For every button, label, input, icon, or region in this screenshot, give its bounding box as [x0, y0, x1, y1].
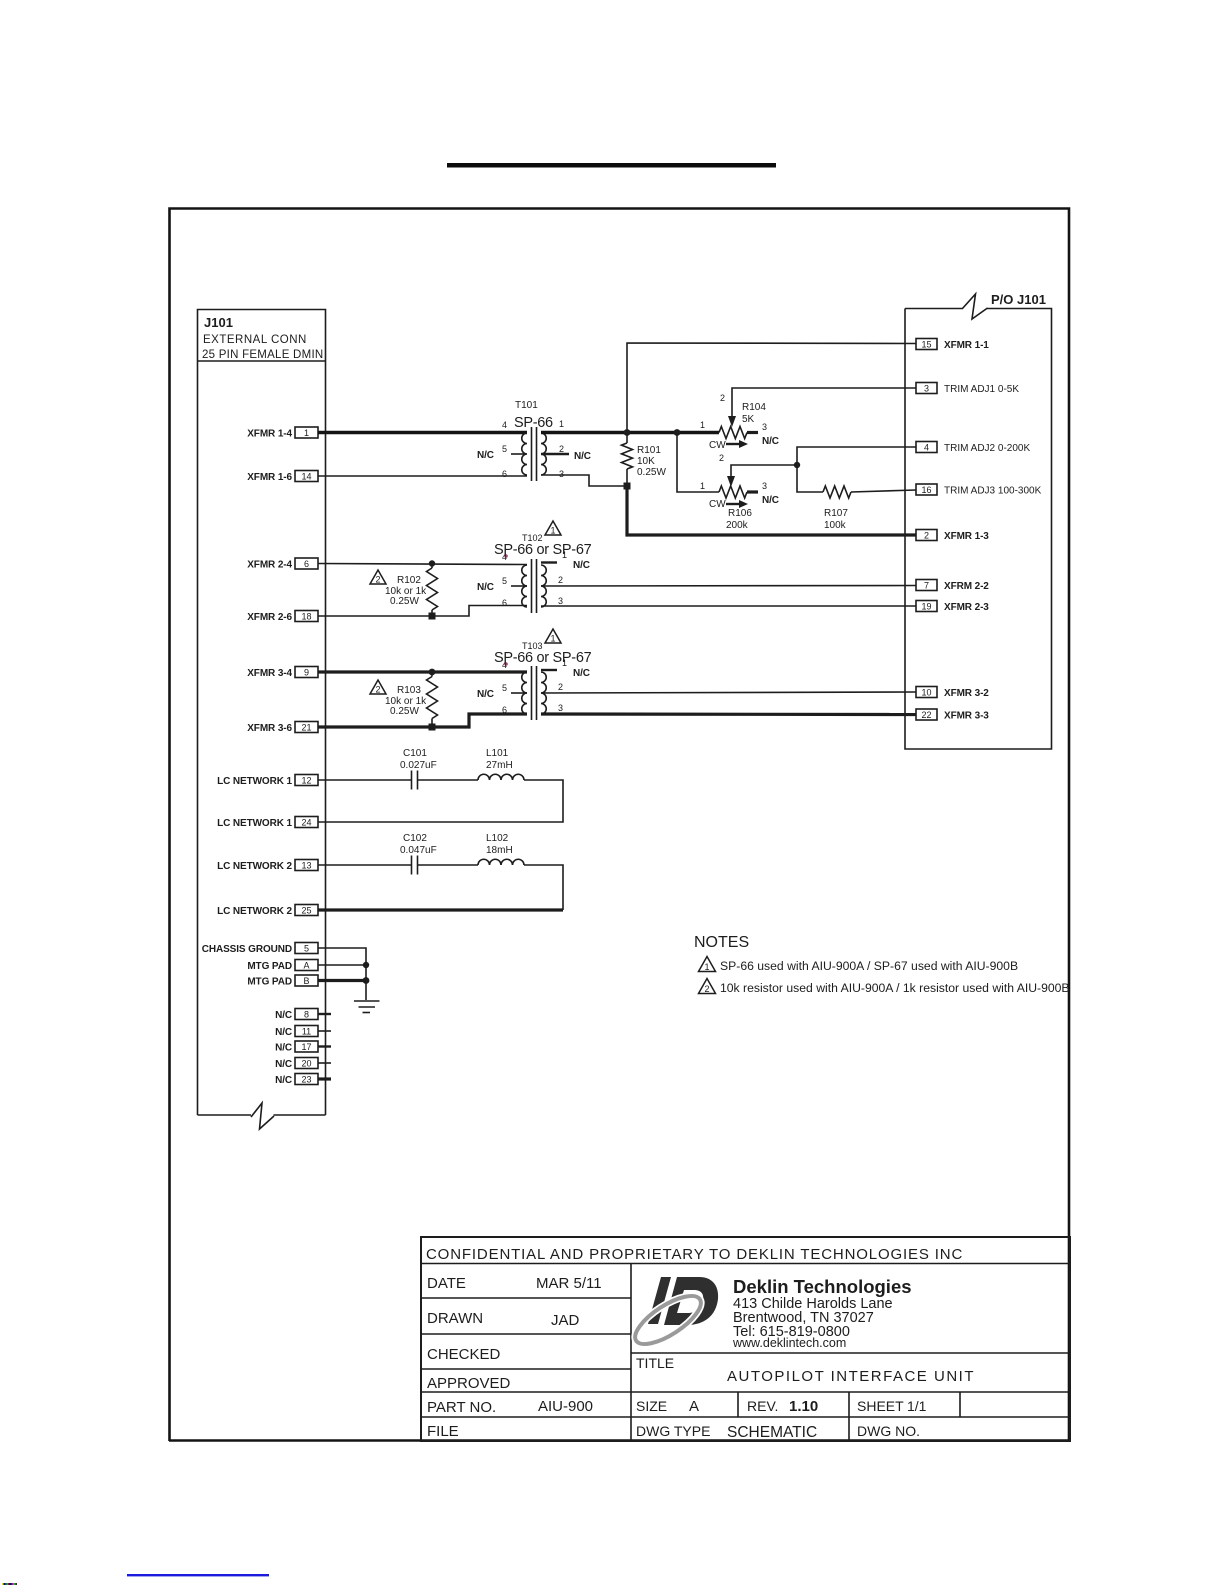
svg-text:2: 2 — [375, 685, 380, 695]
svg-text:18mH: 18mH — [486, 845, 513, 856]
wire N/C stub at pin row y=1031 — [318, 1030, 331, 1032]
wire MTG PAD pin A — [318, 964, 366, 966]
title block row lines — [421, 1297, 631, 1299]
svg-text:N/C: N/C — [477, 689, 494, 700]
resistor R103 — [429, 669, 436, 676]
connector P/O J101 outline — [905, 309, 1052, 750]
svg-text:R101: R101 — [637, 445, 661, 456]
svg-text:3: 3 — [762, 481, 767, 491]
resistor R101 — [626, 433, 628, 444]
size row verticals — [737, 1392, 739, 1417]
node B junction (R101 bottom) — [624, 483, 631, 490]
svg-text:R106: R106 — [728, 508, 752, 519]
svg-text:2: 2 — [559, 444, 564, 454]
svg-text:XFMR 2-3: XFMR 2-3 — [944, 602, 989, 613]
J101 pin 24 (LC NETWORK 1) — [217, 817, 318, 830]
ground symbol — [354, 1000, 380, 1002]
svg-text:XFMR 3-6: XFMR 3-6 — [247, 723, 292, 734]
inductor L102 — [478, 859, 524, 865]
svg-text:SIZE: SIZE — [636, 1398, 667, 1414]
svg-text:1/1: 1/1 — [907, 1398, 927, 1414]
svg-text:B: B — [303, 976, 309, 986]
potentiometer R104 body — [719, 427, 747, 439]
svg-text:10k resistor used with AIU-900: 10k resistor used with AIU-900A / 1k res… — [720, 981, 1070, 995]
node MTG PAD A junction — [363, 962, 369, 968]
svg-text:XFMR 3-4: XFMR 3-4 — [247, 668, 292, 679]
wire XFMR 2-6: J101 pin 18 to T102 pin 6 — [318, 606, 527, 617]
svg-text:XFMR 1-6: XFMR 1-6 — [247, 472, 292, 483]
J101 pin 1 (XFMR 1-4) — [247, 427, 318, 440]
wire node B to XFMR 1-3 (pin 2) — [627, 486, 916, 535]
P/O J101 pin 15 (XFMR 1-1) — [916, 339, 989, 352]
J101 pin 25 (LC NETWORK 2) — [217, 905, 318, 918]
svg-text:CONFIDENTIAL AND PROPRIETARY T: CONFIDENTIAL AND PROPRIETARY TO DEKLIN T… — [426, 1246, 963, 1263]
T103 pin 1 stub (N/C) — [541, 669, 557, 671]
wire TRIM ADJ2 (pin 4) to R106 wiper — [731, 447, 916, 477]
svg-text:18: 18 — [301, 611, 311, 621]
svg-text:R107: R107 — [824, 508, 848, 519]
svg-text:XFMR 3-2: XFMR 3-2 — [944, 688, 989, 699]
svg-text:2: 2 — [558, 682, 563, 692]
svg-text:SP-66 used with AIU-900A / SP-: SP-66 used with AIU-900A / SP-67 used wi… — [720, 959, 1018, 973]
svg-text:6: 6 — [304, 559, 309, 569]
svg-text:R103: R103 — [397, 685, 421, 696]
T101 pin 5 stub (N/C) — [511, 453, 524, 455]
wire N/C stub at pin row y=1014 — [318, 1013, 331, 1015]
svg-text:12: 12 — [301, 775, 311, 785]
J101 pin 6 (XFMR 2-4) — [247, 558, 318, 571]
svg-text:1: 1 — [304, 428, 309, 438]
warning triangle note 2 (R102) — [370, 570, 386, 584]
J101 pin 20 (N/C) — [275, 1058, 318, 1071]
svg-text:PART NO.: PART NO. — [427, 1399, 496, 1416]
wire T102 pin 2 to XFRM 2-2 (pin 7) — [541, 585, 916, 588]
svg-text:XFMR 1-3: XFMR 1-3 — [944, 531, 989, 542]
wire L102 down — [524, 865, 563, 910]
svg-text:4: 4 — [502, 660, 507, 670]
J101 pin 13 (LC NETWORK 2) — [217, 860, 318, 873]
svg-text:6: 6 — [502, 469, 507, 479]
wire TRIM ADJ1 (pin 3) to R104 wiper — [732, 388, 916, 417]
wire N/C stub at pin row y=1063 — [318, 1062, 331, 1064]
svg-text:LC NETWORK 1: LC NETWORK 1 — [217, 776, 292, 787]
svg-text:TRIM ADJ3 100-300K: TRIM ADJ3 100-300K — [944, 486, 1042, 497]
wire N/C stub at pin row y=1046.5 — [318, 1045, 331, 1047]
svg-text:N/C: N/C — [275, 1059, 292, 1070]
svg-text:14: 14 — [301, 471, 311, 481]
svg-text:5: 5 — [502, 576, 507, 586]
bottom-left colored scan noise — [2, 1583, 4, 1585]
wire T101 pin 3 to R101 bottom node — [541, 475, 627, 486]
transformer T103 left winding — [522, 672, 527, 714]
svg-text:FILE: FILE — [427, 1423, 459, 1440]
svg-text:JAD: JAD — [551, 1312, 580, 1329]
wire XFMR 3-4: J101 pin 9 to T103 pin 4 — [318, 670, 527, 673]
wire C101 to L101 — [418, 779, 478, 781]
wire R107 to TRIM ADJ3 (pin 16) — [851, 490, 916, 492]
wire T103 pin 2 to XFMR 3-2 (pin 10) — [541, 692, 916, 693]
svg-text:LC NETWORK 1: LC NETWORK 1 — [217, 818, 292, 829]
svg-text:20: 20 — [301, 1058, 311, 1068]
svg-text:1.10: 1.10 — [789, 1398, 818, 1415]
J101 pin 11 (N/C) — [275, 1026, 318, 1039]
svg-text:N/C: N/C — [762, 495, 779, 506]
warning triangle note 1 (T103) — [545, 629, 561, 643]
transformer T101 right winding — [541, 433, 546, 475]
wire XFMR 3-6: J101 pin 21 to T103 pin 6 — [318, 714, 527, 727]
svg-text:EXTERNAL CONN: EXTERNAL CONN — [203, 334, 307, 346]
resistor R102 — [429, 560, 435, 566]
svg-text:N/C: N/C — [275, 1027, 292, 1038]
capacitor C102 — [411, 856, 413, 875]
svg-text:3: 3 — [558, 703, 563, 713]
transformer T102 left winding — [522, 565, 527, 607]
connector J101 header divider — [198, 360, 326, 362]
svg-text:C101: C101 — [403, 748, 427, 759]
wire T103 pin 3 to XFMR 3-3 (pin 22) — [541, 712, 916, 716]
J101 pin 23 (N/C) — [275, 1074, 318, 1087]
svg-text:1: 1 — [550, 634, 555, 644]
svg-text:1: 1 — [704, 962, 709, 972]
svg-text:XFMR 3-3: XFMR 3-3 — [944, 711, 989, 722]
svg-text:www.deklintech.com: www.deklintech.com — [732, 1336, 846, 1350]
title block confidential row divider — [421, 1263, 1070, 1265]
svg-text:SHEET: SHEET — [857, 1398, 904, 1414]
svg-text:N/C: N/C — [477, 582, 494, 593]
svg-text:5K: 5K — [742, 414, 755, 425]
P/O J101 pin 7 (XFRM 2-2) — [916, 580, 989, 593]
Deklin logo — [628, 1277, 718, 1353]
title block outer border — [421, 1237, 1070, 1441]
svg-text:CHASSIS GROUND: CHASSIS GROUND — [202, 944, 292, 955]
svg-text:10: 10 — [921, 687, 931, 697]
svg-text:8: 8 — [304, 1009, 309, 1019]
svg-text:MAR 5/11: MAR 5/11 — [536, 1275, 602, 1292]
svg-text:0.047uF: 0.047uF — [400, 845, 437, 856]
svg-text:200k: 200k — [726, 520, 749, 531]
J101 pin 18 (XFMR 2-6) — [247, 611, 318, 624]
svg-text:XFRM 2-2: XFRM 2-2 — [944, 581, 989, 592]
P/O J101 pin 4 (TRIM ADJ2 0-200K) — [916, 442, 1030, 455]
svg-text:2: 2 — [375, 575, 380, 585]
svg-text:DATE: DATE — [427, 1275, 466, 1292]
note 1 triangle — [699, 957, 716, 972]
svg-text:15: 15 — [921, 339, 931, 349]
svg-text:XFMR 2-4: XFMR 2-4 — [247, 560, 292, 571]
wire node C down to R106 pin 1 — [677, 433, 719, 493]
connector J101 outline — [198, 310, 326, 1116]
P/O J101 pin 19 (XFMR 2-3) — [916, 601, 989, 614]
svg-text:MTG PAD: MTG PAD — [247, 961, 292, 972]
wire LC NETWORK 2 pin 13 to C102 — [318, 864, 411, 866]
J101 pin A (MTG PAD) — [247, 960, 318, 973]
svg-text:3: 3 — [924, 383, 929, 393]
svg-text:TRIM ADJ2 0-200K: TRIM ADJ2 0-200K — [944, 443, 1030, 454]
svg-text:25: 25 — [301, 905, 311, 915]
svg-text:24: 24 — [301, 817, 311, 827]
svg-text:J101: J101 — [204, 315, 233, 330]
svg-text:DWG TYPE: DWG TYPE — [636, 1423, 710, 1439]
svg-text:9: 9 — [304, 667, 309, 677]
svg-text:N/C: N/C — [574, 451, 591, 462]
svg-text:4: 4 — [502, 552, 507, 562]
svg-text:LC NETWORK 2: LC NETWORK 2 — [217, 906, 292, 917]
svg-text:CHECKED: CHECKED — [427, 1346, 501, 1363]
svg-text:N/C: N/C — [762, 436, 779, 447]
svg-text:6: 6 — [502, 705, 507, 715]
wire XFMR 1-6: J101 pin 14 to T101 pin 6 — [318, 475, 527, 477]
svg-text:19: 19 — [921, 601, 931, 611]
warning triangle note 2 (R103) — [370, 680, 386, 694]
svg-text:SP-66 or SP-67: SP-66 or SP-67 — [494, 650, 592, 666]
T102 pin 1 stub (N/C) — [541, 561, 557, 563]
svg-text:T101: T101 — [515, 400, 538, 411]
inductor L101 — [478, 774, 524, 780]
wire T102 pin 3 to XFMR 2-3 (pin 19) — [541, 605, 916, 607]
P/O J101 pin 22 (XFMR 3-3) — [916, 709, 989, 722]
J101 pin B (MTG PAD) — [247, 975, 318, 988]
resistor R107 — [797, 465, 823, 492]
wire LC NETWORK 1 pin 12 to C101 — [318, 779, 411, 781]
svg-text:XFMR 1-4: XFMR 1-4 — [247, 429, 292, 440]
svg-text:25 PIN FEMALE DMIN: 25 PIN FEMALE DMIN — [202, 349, 323, 361]
P/O J101 pin 2 (XFMR 1-3) — [916, 530, 989, 543]
J101 pin 8 (N/C) — [275, 1009, 318, 1022]
J101 pin 9 (XFMR 3-4) — [247, 667, 318, 680]
svg-text:TITLE: TITLE — [636, 1355, 674, 1371]
svg-text:21: 21 — [301, 722, 311, 732]
svg-text:A: A — [303, 960, 309, 970]
svg-text:AUTOPILOT INTERFACE UNIT: AUTOPILOT INTERFACE UNIT — [727, 1368, 975, 1385]
bottom blue scan line — [127, 1574, 269, 1576]
T102 pin 5 stub (N/C) — [511, 585, 527, 587]
svg-text:R102: R102 — [397, 575, 421, 586]
svg-text:A: A — [689, 1398, 699, 1415]
svg-text:L102: L102 — [486, 833, 509, 844]
svg-text:1: 1 — [562, 550, 567, 560]
wire to LC NETWORK 2 pin 25 — [318, 908, 563, 911]
R104 wiper arrowhead — [728, 416, 736, 427]
svg-text:16: 16 — [921, 485, 931, 495]
transformer T103 core — [531, 666, 533, 720]
svg-text:22: 22 — [921, 710, 931, 720]
R106 pin 3 stub (N/C) — [747, 490, 758, 493]
svg-text:1: 1 — [562, 658, 567, 668]
potentiometer R106 body — [719, 486, 747, 498]
wire XFMR 1-4: J101 pin 1 to T101 pin 4 — [318, 431, 527, 435]
svg-text:13: 13 — [301, 860, 311, 870]
svg-text:27mH: 27mH — [486, 760, 513, 771]
svg-text:0.25W: 0.25W — [637, 467, 666, 478]
node MTG PAD B junction — [363, 977, 370, 984]
wire CHASSIS GROUND pin 5 — [318, 948, 366, 1000]
wire L101 to LC NETWORK 1 pin 24 — [318, 780, 563, 822]
svg-text:4: 4 — [502, 420, 507, 430]
svg-text:1: 1 — [700, 420, 705, 430]
svg-text:XFMR 2-6: XFMR 2-6 — [247, 612, 292, 623]
svg-text:N/C: N/C — [275, 1043, 292, 1054]
svg-text:3: 3 — [559, 469, 564, 479]
svg-text:SCHEMATIC: SCHEMATIC — [727, 1424, 817, 1441]
warning triangle note 1 (T102) — [545, 521, 561, 535]
svg-text:3: 3 — [762, 422, 767, 432]
T101 pin 2 stub (N/C) — [541, 453, 569, 455]
svg-text:N/C: N/C — [275, 1010, 292, 1021]
svg-text:CW: CW — [709, 499, 726, 510]
svg-text:3: 3 — [558, 596, 563, 606]
wire MTG PAD pin B — [318, 979, 366, 982]
svg-text:0.027uF: 0.027uF — [400, 760, 437, 771]
svg-text:11: 11 — [302, 1026, 311, 1036]
svg-text:REV.: REV. — [747, 1398, 778, 1414]
J101 pin 5 (CHASSIS GROUND) — [202, 943, 318, 956]
svg-text:N/C: N/C — [275, 1075, 292, 1086]
svg-text:N/C: N/C — [573, 668, 590, 679]
drawing frame border — [169, 209, 1069, 1442]
wire N/C stub at pin row y=1079 — [318, 1077, 331, 1080]
wire node A up to XFMR 1-1 (pin 15) — [627, 343, 916, 433]
svg-text:5: 5 — [502, 683, 507, 693]
R104 pin 3 stub (N/C) — [747, 431, 758, 434]
P/O J101 pin 3 (TRIM ADJ1 0-5K) — [916, 383, 1019, 396]
title block left column divider — [630, 1264, 632, 1442]
transformer T103 right winding — [541, 672, 546, 714]
svg-text:N/C: N/C — [477, 450, 494, 461]
top header rule line — [447, 163, 776, 168]
svg-text:1: 1 — [559, 419, 564, 429]
svg-text:4: 4 — [924, 442, 929, 452]
svg-text:XFMR 1-1: XFMR 1-1 — [944, 340, 989, 351]
svg-text:CW: CW — [709, 440, 726, 451]
J101 pin 21 (XFMR 3-6) — [247, 722, 318, 735]
svg-text:0.25W: 0.25W — [390, 596, 419, 607]
svg-text:2: 2 — [719, 453, 724, 463]
note 2 triangle — [699, 979, 716, 994]
svg-text:LC NETWORK 2: LC NETWORK 2 — [217, 861, 292, 872]
svg-text:APPROVED: APPROVED — [427, 1375, 511, 1392]
svg-text:MTG PAD: MTG PAD — [247, 977, 292, 988]
transformer T101 core — [531, 427, 533, 481]
P/O J101 pin 16 (TRIM ADJ3 100-300K) — [916, 484, 1042, 497]
svg-text:10K: 10K — [637, 456, 655, 467]
transformer T102 core — [531, 559, 533, 613]
svg-text:23: 23 — [301, 1074, 311, 1084]
wire T101 pin 1 to node A — [541, 431, 719, 435]
svg-text:0.25W: 0.25W — [390, 706, 419, 717]
T103 pin 5 stub (N/C) — [511, 692, 527, 694]
svg-text:2: 2 — [720, 393, 725, 403]
svg-text:C102: C102 — [403, 833, 427, 844]
node A junction — [624, 429, 631, 436]
J101 pin 14 (XFMR 1-6) — [247, 471, 318, 484]
svg-text:L101: L101 — [486, 748, 509, 759]
svg-text:1: 1 — [550, 526, 555, 536]
transformer T102 right winding — [541, 565, 546, 607]
svg-text:R104: R104 — [742, 402, 766, 413]
J101 pin 17 (N/C) — [275, 1041, 318, 1054]
capacitor C101 — [411, 771, 413, 790]
svg-text:NOTES: NOTES — [694, 934, 749, 951]
R106 wiper arrowhead — [727, 476, 735, 487]
wire XFMR 2-4: J101 pin 6 to T102 pin 4 — [318, 564, 527, 565]
svg-text:P/O J101: P/O J101 — [991, 292, 1046, 307]
svg-text:17: 17 — [301, 1042, 311, 1052]
svg-text:5: 5 — [304, 943, 309, 953]
P/O J101 pin 10 (XFMR 3-2) — [916, 687, 989, 700]
J101 pin 12 (LC NETWORK 1) — [217, 775, 318, 788]
svg-text:AIU-900: AIU-900 — [538, 1398, 593, 1415]
svg-text:2: 2 — [558, 575, 563, 585]
svg-text:DWG NO.: DWG NO. — [857, 1423, 920, 1439]
svg-text:100k: 100k — [824, 520, 847, 531]
svg-text:5: 5 — [502, 444, 507, 454]
svg-text:DRAWN: DRAWN — [427, 1310, 483, 1327]
svg-text:SP-66: SP-66 — [514, 415, 553, 431]
node D junction (TRIM ADJ2 / R107) — [794, 462, 800, 468]
svg-text:2: 2 — [924, 530, 929, 540]
node C junction — [674, 429, 681, 436]
svg-text:6: 6 — [502, 598, 507, 608]
svg-text:N/C: N/C — [573, 560, 590, 571]
svg-text:SP-66 or SP-67: SP-66 or SP-67 — [494, 542, 592, 558]
connector J101 break symbol — [251, 1103, 274, 1129]
transformer T101 left winding — [522, 433, 527, 475]
wire C102 to L102 — [418, 864, 478, 866]
svg-text:7: 7 — [924, 580, 929, 590]
svg-text:Deklin Technologies: Deklin Technologies — [733, 1276, 912, 1297]
svg-text:TRIM ADJ1 0-5K: TRIM ADJ1 0-5K — [944, 384, 1019, 395]
svg-text:2: 2 — [704, 984, 709, 994]
connector P/O J101 break symbol — [962, 294, 988, 319]
svg-text:1: 1 — [700, 481, 705, 491]
